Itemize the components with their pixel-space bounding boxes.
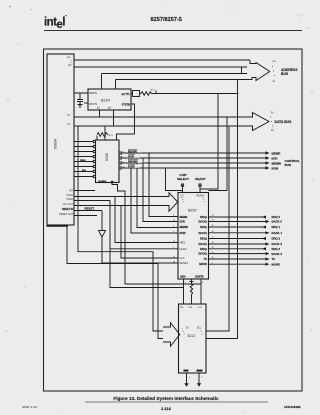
svg-text:8224: 8224 [101,98,111,103]
svg-text:DRQ 2: DRQ 2 [272,237,281,241]
svg-text:AEN: AEN [180,276,185,279]
svg-text:RESET IN: RESET IN [62,208,73,211]
svg-text:7: 7 [201,377,202,379]
svg-text:DACK 3: DACK 3 [272,252,283,256]
svg-text:D0: D0 [271,129,274,132]
svg-text:RESIN: RESIN [89,91,97,95]
svg-text:BUSEN: BUSEN [99,181,107,183]
svg-text:φ2 TTL: φ2 TTL [122,93,131,96]
svg-text:MEMR: MEMR [272,151,282,155]
svg-text:φ2: φ2 [108,106,112,109]
svg-text:25: 25 [212,220,214,222]
svg-text:7: 7 [123,156,124,158]
svg-text:A15: A15 [67,56,71,59]
svg-text:TC: TC [204,257,208,261]
svg-text:DI: DI [186,328,189,330]
svg-text:DATA BUS: DATA BUS [275,120,293,124]
svg-text:8228: 8228 [105,153,109,161]
svg-text:DRQ 1: DRQ 1 [272,225,281,229]
svg-text:36: 36 [212,257,214,259]
svg-text:3: 3 [173,215,174,217]
svg-text:MEMW: MEMW [180,225,189,229]
svg-text:HLDA: HLDA [67,198,74,201]
svg-text:intel: intel [44,17,65,32]
svg-text:STSTB: STSTB [122,104,130,107]
svg-text:INT: INT [69,189,73,192]
svg-text:DACK 0: DACK 0 [272,220,283,224]
svg-text:12: 12 [123,166,125,168]
svg-text:φ1: φ1 [97,106,101,109]
svg-text:HLDA: HLDA [180,247,187,251]
svg-text:DRQ 3: DRQ 3 [272,247,281,251]
svg-text:1: 1 [173,231,174,233]
svg-text:8212: 8212 [188,334,196,338]
svg-text:DRQ2: DRQ2 [200,237,207,241]
svg-text:ADSTB: ADSTB [195,276,204,279]
svg-text:MARK: MARK [199,262,207,266]
svg-text:17: 17 [212,237,214,239]
svg-text:9: 9 [123,161,124,163]
svg-text:STB: STB [188,307,193,309]
svg-text:DRQ3: DRQ3 [200,247,207,251]
svg-text:I/OR: I/OR [272,156,279,160]
svg-text:MEMW: MEMW [272,161,282,165]
svg-text:VCC: VCC [151,88,156,92]
svg-text:7: 7 [173,247,174,249]
svg-text:10: 10 [173,241,175,243]
svg-text:D7: D7 [68,114,71,117]
svg-text:CLK: CLK [180,256,185,260]
svg-text:14: 14 [212,242,214,244]
svg-text:DACK 1: DACK 1 [272,231,283,235]
svg-text:. : · ·: . : · · [296,13,303,17]
svg-text:8257: 8257 [188,208,198,213]
svg-text:CLR: CLR [198,307,203,309]
svg-text:8: 8 [202,282,203,284]
svg-text:23: 23 [173,220,175,222]
svg-text:MARK: MARK [272,262,280,266]
svg-text:15: 15 [212,252,214,254]
svg-text:DACK2: DACK2 [198,242,207,246]
svg-text:VCC: VCC [109,133,114,137]
svg-text:DACK1: DACK1 [198,231,207,235]
svg-text:MEMR: MEMR [180,215,188,219]
svg-text:AFN-01840B: AFN-01840B [284,405,300,409]
svg-text:READY: READY [197,195,205,198]
svg-text:19: 19 [212,215,214,217]
svg-text:DACK3: DACK3 [198,252,207,256]
svg-text:CLK OUT: CLK OUT [63,203,74,206]
svg-text:Figure 13. Detailed System In: Figure 13. Detailed System Interface Sch… [113,396,219,401]
svg-text:HOLD: HOLD [66,194,73,197]
svg-text:8080A: 8080A [54,138,58,149]
svg-text:02597-2 /10: 02597-2 /10 [22,405,37,409]
svg-text:I/OW: I/OW [272,166,279,170]
svg-text:I/OW: I/OW [128,165,135,169]
svg-text:18: 18 [212,225,214,227]
svg-text:A0: A0 [273,80,276,83]
svg-text:RESET: RESET [180,261,189,265]
svg-text:2: 2 [173,225,174,227]
svg-text:CS: CS [181,196,185,198]
svg-text:BUS: BUS [281,72,289,76]
svg-text:D0: D0 [68,123,71,126]
svg-text:MEMR: MEMR [128,149,138,153]
svg-text:1: 1 [185,282,186,284]
svg-text:16: 16 [212,247,214,249]
svg-text:12: 12 [173,256,175,258]
svg-text:BUS: BUS [285,163,292,167]
svg-text:WR: WR [82,170,86,172]
svg-text:5: 5 [212,262,213,264]
svg-text:9: 9 [189,377,190,379]
svg-text:DO: DO [197,328,201,330]
svg-text:TC: TC [272,257,276,261]
svg-text:READY: READY [195,177,206,181]
svg-text:2-116: 2-116 [161,406,172,411]
svg-text:I/OR: I/OR [180,220,185,224]
svg-text:MD: MD [180,307,184,309]
svg-text:RESET OUT: RESET OUT [59,213,73,216]
svg-text:I/OR: I/OR [128,155,135,159]
svg-text:24: 24 [212,231,214,233]
svg-text:DACK 2: DACK 2 [272,242,283,246]
svg-text:MEMW: MEMW [128,160,138,164]
svg-text:I/OW: I/OW [180,231,186,235]
svg-text:RESET: RESET [85,207,95,211]
svg-text:A0: A0 [68,64,71,67]
svg-text:A15: A15 [273,60,277,63]
svg-text:DRQ1: DRQ1 [200,225,207,229]
svg-text:HRQ: HRQ [180,241,186,245]
svg-text:8257/8257-5: 8257/8257-5 [151,17,182,23]
svg-text:13: 13 [173,262,175,264]
svg-text:4: 4 [123,151,124,153]
svg-text:RDYIN: RDYIN [89,102,97,106]
svg-text:SELECT: SELECT [177,177,189,181]
svg-text:DBIN: DBIN [80,160,86,162]
svg-text:D7: D7 [271,112,274,115]
svg-text:DRQ0: DRQ0 [200,215,207,219]
svg-text:DRQ 0: DRQ 0 [272,215,281,219]
svg-text:DACK0: DACK0 [198,220,207,224]
